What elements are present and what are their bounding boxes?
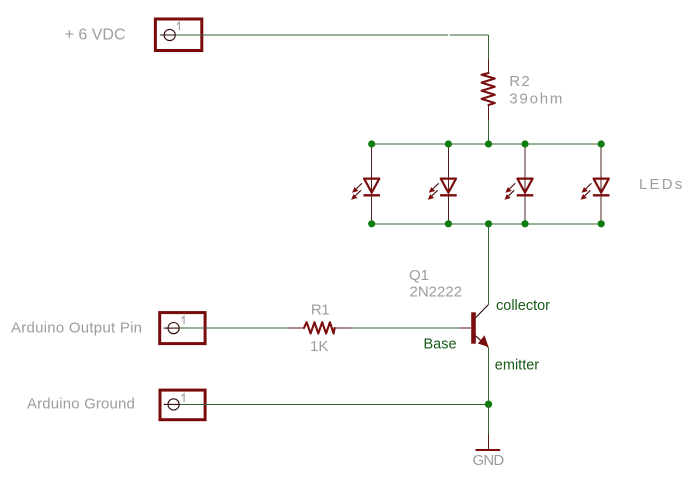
junction dot bottom rail col2 bbox=[445, 220, 452, 227]
svg-text:R2: R2 bbox=[509, 73, 531, 90]
ground symbol GND bbox=[476, 435, 501, 452]
wire emitter down to ground junction bbox=[488, 348, 490, 405]
wire +6VDC horizontal bbox=[176, 34, 489, 36]
pin number 1 (JP2) bbox=[182, 316, 185, 324]
junction dot top rail col2 bbox=[445, 140, 452, 147]
svg-text:2N2222: 2N2222 bbox=[410, 283, 463, 300]
wire output pin to R1 bbox=[180, 327, 289, 329]
transistor Q1 bbox=[459, 305, 489, 348]
wire R1 to base bbox=[351, 327, 459, 329]
wire R2 to LED top rail bbox=[488, 120, 490, 145]
pin number 1 (JP1) bbox=[177, 22, 180, 30]
wire bottom rail to collector bbox=[488, 224, 490, 305]
svg-text:Arduino Output Pin: Arduino Output Pin bbox=[11, 319, 142, 336]
junction dot top rail R2 bbox=[485, 140, 492, 147]
junction dot top rail col1 bbox=[368, 140, 375, 147]
connector JP3 (Arduino ground pin header) bbox=[160, 390, 205, 420]
junction dot bottom rail collector bbox=[485, 220, 492, 227]
junction dot emitter/ground bbox=[485, 401, 492, 408]
svg-text:Arduino Ground: Arduino Ground bbox=[27, 396, 135, 413]
wire ground horizontal bbox=[180, 403, 489, 405]
resistor R2 bbox=[482, 59, 495, 120]
wire junction to GND symbol bbox=[488, 404, 490, 435]
wire gap artifact bbox=[448, 34, 450, 36]
svg-text:emitter: emitter bbox=[495, 358, 539, 374]
wire LED top rail bbox=[372, 143, 602, 145]
svg-text:R1: R1 bbox=[311, 301, 329, 318]
junction dot bottom rail col4 bbox=[598, 220, 605, 227]
pin number 1 (JP3) bbox=[182, 394, 185, 402]
svg-text:Q1: Q1 bbox=[409, 267, 429, 284]
LED2 bbox=[428, 146, 457, 222]
svg-text:collector: collector bbox=[496, 298, 550, 314]
svg-text:GND: GND bbox=[473, 452, 505, 469]
junction dot bottom rail col1 bbox=[368, 220, 375, 227]
svg-text:39ohm: 39ohm bbox=[509, 90, 564, 107]
wire LED bottom rail bbox=[372, 223, 602, 225]
svg-text:Base: Base bbox=[424, 336, 457, 352]
connector JP1 (+6VDC pin header) bbox=[155, 19, 201, 51]
junction dot bottom rail col3 bbox=[521, 220, 528, 227]
LED1 bbox=[351, 146, 380, 222]
LED4 bbox=[581, 146, 610, 222]
resistor R1 bbox=[288, 322, 351, 333]
svg-text:1K: 1K bbox=[310, 338, 328, 355]
wire +6VDC vertical down to R2 bbox=[488, 35, 490, 60]
junction dot top rail col3 bbox=[521, 140, 528, 147]
connector JP2 (Arduino output pin header) bbox=[160, 313, 205, 344]
svg-text:LEDs: LEDs bbox=[639, 176, 684, 193]
LED3 bbox=[504, 146, 533, 222]
svg-text:+ 6 VDC: + 6 VDC bbox=[65, 26, 126, 43]
junction dot top rail col4 bbox=[598, 140, 605, 147]
